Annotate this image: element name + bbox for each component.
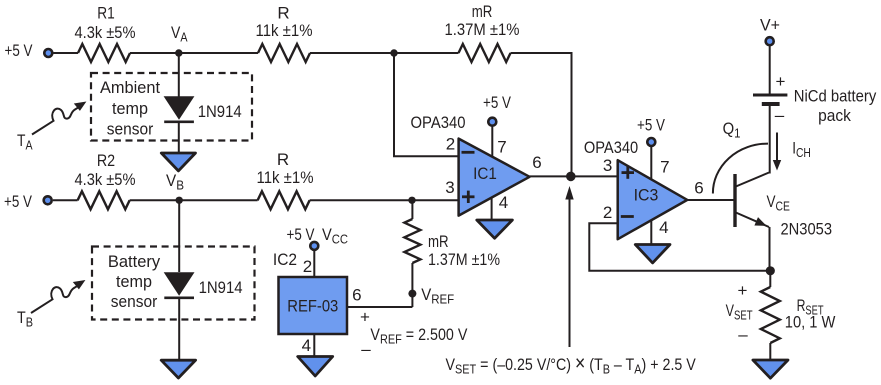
svg-text:4: 4	[302, 336, 311, 355]
svg-text:REF-03: REF-03	[287, 297, 338, 316]
svg-text:–: –	[361, 340, 371, 359]
wire IC1 output	[530, 175, 618, 177]
svg-text:sensor: sensor	[107, 120, 154, 139]
resistor mR (1.37M, top feedback)	[445, 2, 520, 62]
node VA	[171, 23, 188, 57]
wire	[394, 52, 459, 54]
svg-text:2N3053: 2N3053	[781, 220, 833, 239]
svg-text:+: +	[360, 308, 370, 327]
wire	[53, 199, 78, 201]
svg-text:3: 3	[445, 178, 454, 197]
svg-text:1.37M ±1%: 1.37M ±1%	[428, 250, 500, 269]
svg-text:–: –	[738, 325, 748, 344]
svg-text:IC1: IC1	[473, 164, 497, 183]
wire IC1 pin2	[394, 53, 459, 156]
op-amp IC3 OPA340	[584, 138, 687, 239]
svg-text:7: 7	[660, 158, 669, 177]
ICH current arrow	[773, 133, 811, 171]
dashed box ambient temp sensor	[91, 73, 252, 141]
svg-text:pack: pack	[818, 106, 851, 125]
wire	[130, 52, 179, 54]
output node	[566, 172, 576, 182]
wire	[179, 52, 258, 54]
svg-text:R: R	[277, 150, 289, 169]
wire IC1 pin7	[491, 126, 493, 157]
resistor RSET	[761, 271, 836, 360]
svg-text:10, 1 W: 10, 1 W	[785, 313, 836, 332]
TA label and squiggle arrow	[17, 102, 86, 153]
svg-text:1N914: 1N914	[198, 102, 242, 121]
svg-text:V+: V+	[760, 16, 780, 35]
emitter node	[766, 266, 775, 275]
svg-text:R1: R1	[97, 4, 115, 23]
svg-text:Battery: Battery	[108, 252, 161, 271]
callout arrow to VSET node	[565, 186, 573, 347]
wire	[310, 199, 459, 201]
node VREF	[408, 285, 454, 307]
dashed box battery temp sensor	[92, 247, 255, 320]
svg-text:+5 V: +5 V	[287, 225, 316, 244]
ground (IC2)	[298, 357, 333, 377]
battery NiCd pack	[753, 72, 877, 125]
svg-text:+5 V: +5 V	[4, 192, 33, 211]
svg-text:+: +	[738, 281, 748, 300]
+5 V terminal (row 1)	[5, 41, 53, 60]
svg-text:–: –	[775, 106, 785, 125]
wire	[179, 199, 257, 201]
svg-text:4: 4	[499, 193, 508, 212]
wire VA down	[178, 53, 180, 97]
svg-text:mR: mR	[472, 2, 493, 21]
svg-text:+5 V: +5 V	[483, 93, 512, 112]
TB label and squiggle arrow	[17, 280, 85, 330]
ground (RSET)	[753, 360, 788, 378]
svg-text:2: 2	[603, 203, 612, 222]
voltage reference IC2 REF-03	[273, 250, 347, 334]
wire	[769, 46, 771, 94]
svg-text:temp: temp	[116, 272, 152, 291]
+5 V VCC terminal IC2	[287, 225, 349, 250]
wire IC2 pin4	[313, 334, 315, 357]
resistor R2	[75, 151, 136, 209]
ground (battery sensor)	[161, 360, 195, 378]
resistor mR (vertical)	[404, 200, 500, 307]
wire IC3 pin4	[650, 220, 652, 245]
wire IC3 feedback	[589, 223, 770, 271]
svg-text:sensor: sensor	[111, 292, 158, 311]
wire IC3 output	[687, 199, 733, 201]
svg-text:11k ±1%: 11k ±1%	[256, 21, 313, 40]
wire VB down	[178, 200, 180, 272]
V+ terminal	[760, 16, 780, 46]
ground (IC3)	[635, 245, 670, 263]
svg-text:Ambient: Ambient	[100, 78, 160, 97]
node VB	[166, 171, 184, 204]
wire	[178, 298, 180, 361]
svg-text:+5 V: +5 V	[637, 116, 666, 135]
svg-text:IC2: IC2	[273, 250, 297, 269]
svg-text:4.3k ±5%: 4.3k ±5%	[75, 170, 136, 189]
svg-text:NiCd battery: NiCd battery	[794, 87, 877, 106]
ground (ambient sensor)	[161, 153, 195, 171]
+5 V terminal IC3	[637, 116, 666, 147]
wire IC1 pin4	[491, 197, 493, 221]
svg-text:2: 2	[303, 257, 312, 276]
wire	[130, 199, 180, 201]
svg-text:1N914: 1N914	[199, 278, 243, 297]
wire	[54, 52, 79, 54]
op-amp IC1 OPA340	[411, 113, 530, 216]
wire	[511, 53, 572, 176]
wire REF-03 pin 6	[347, 306, 412, 308]
svg-text:mR: mR	[428, 232, 449, 251]
svg-text:+: +	[776, 72, 786, 91]
+5 V terminal IC1	[483, 93, 512, 126]
wire	[310, 52, 394, 54]
svg-text:6: 6	[532, 153, 541, 172]
junction node	[390, 49, 397, 56]
svg-text:R: R	[277, 4, 289, 23]
resistor R1	[75, 4, 136, 63]
resistor R (11k, top)	[256, 4, 313, 63]
svg-text:11k ±1%: 11k ±1%	[257, 168, 314, 187]
+5 V terminal (row 2)	[4, 192, 52, 211]
resistor R (11k, bottom)	[257, 150, 314, 209]
svg-text:temp: temp	[112, 99, 148, 118]
diode D2 1N914	[164, 272, 243, 298]
wire	[178, 122, 180, 154]
junction node (mR tap)	[408, 197, 415, 204]
svg-text:6: 6	[694, 179, 703, 198]
diode D1 1N914	[164, 96, 242, 122]
svg-text:2: 2	[446, 135, 455, 154]
wire IC3 pin7	[650, 147, 652, 180]
wire IC2 pin2	[313, 251, 315, 278]
ground (IC1)	[477, 220, 513, 238]
svg-text:VSET = (–0.25 V/°C) × (TB – TA: VSET = (–0.25 V/°C) × (TB – TA) + 2.5 V	[446, 352, 697, 377]
svg-text:IC3: IC3	[634, 186, 659, 205]
svg-text:4: 4	[659, 218, 668, 237]
svg-text:3: 3	[603, 156, 612, 175]
svg-text:OPA340: OPA340	[411, 113, 466, 132]
svg-text:OPA340: OPA340	[584, 138, 638, 157]
svg-text:6: 6	[352, 286, 361, 305]
svg-text:4.3k ±5%: 4.3k ±5%	[75, 23, 136, 42]
svg-text:1.37M ±1%: 1.37M ±1%	[445, 20, 520, 39]
transistor Q1 2N3053	[713, 119, 832, 239]
wire emitter down	[769, 227, 771, 271]
svg-text:7: 7	[497, 138, 506, 157]
svg-text:R2: R2	[97, 151, 115, 170]
wire battery to collector	[769, 106, 771, 174]
svg-text:+5 V: +5 V	[5, 41, 34, 60]
